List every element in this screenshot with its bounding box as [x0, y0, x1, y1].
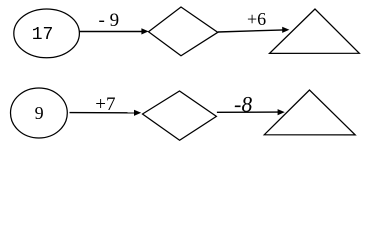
- circle node 9: [11, 88, 68, 138]
- arrowhead row1 a: [141, 28, 148, 34]
- svg-text:- 9: - 9: [99, 10, 120, 31]
- svg-text:+6: +6: [247, 9, 266, 29]
- arrowhead row2 a: [134, 110, 141, 116]
- svg-text:17: 17: [32, 25, 54, 45]
- svg-text:+7: +7: [95, 94, 115, 115]
- ellipse node 17: [14, 9, 80, 58]
- wire row1 a: [79, 31, 143, 33]
- wire row1 b: [218, 30, 284, 32]
- svg-text:9: 9: [35, 103, 44, 123]
- svg-text:-8: -8: [233, 91, 254, 116]
- wire row2 a: [70, 112, 136, 114]
- arrowhead row2 b: [278, 109, 285, 115]
- diamond row1: [149, 7, 218, 56]
- triangle row2: [264, 90, 355, 135]
- diamond row2: [143, 91, 217, 140]
- triangle row1: [270, 9, 360, 53]
- wire row2 b: [217, 111, 280, 113]
- arrowhead row1 b: [282, 27, 289, 33]
